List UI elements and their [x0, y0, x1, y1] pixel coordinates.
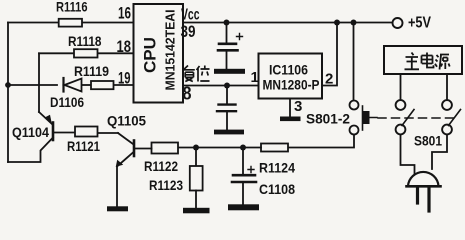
svg-text:1: 1 — [251, 69, 259, 86]
wire D1106 row (pin 19) — [8, 84, 57, 86]
svg-text:C1108: C1108 — [259, 181, 295, 197]
switch S801-2 pushbutton — [350, 101, 378, 135]
svg-text:MN15142TEAI: MN15142TEAI — [163, 10, 178, 91]
svg-text:IC1106: IC1106 — [269, 62, 308, 78]
resistor R1122 — [152, 143, 179, 154]
label 复位 (reset) hand-drawn — [184, 66, 210, 82]
node junction C1108 tap — [240, 145, 246, 151]
wire Vcc top rail — [183, 22, 392, 24]
svg-text:3: 3 — [294, 98, 302, 115]
svg-text:19: 19 — [118, 69, 131, 88]
switch S801 right pole — [442, 100, 460, 134]
capacitor C1107 (Vcc filter) — [218, 23, 243, 70]
svg-text:+5V: +5V — [408, 15, 432, 32]
node junction IC pin2 tap — [334, 20, 340, 26]
svg-text:R1118: R1118 — [68, 33, 102, 49]
ground (C1108) — [228, 204, 259, 210]
ground (Q1105 emitter) — [107, 206, 128, 211]
ground (Vcc filter cap) — [214, 69, 245, 74]
wire plug right lead — [432, 135, 447, 170]
node junction R1123 tap — [193, 145, 199, 151]
ground (R1123) — [183, 208, 210, 214]
svg-text:S801-2: S801-2 — [306, 111, 350, 127]
diode D1106 — [64, 78, 82, 92]
op-amp CPU U-box MN15142TEAI — [134, 4, 184, 103]
switch S801 left pole — [396, 100, 414, 134]
svg-text:39: 39 — [181, 22, 196, 41]
svg-text:8: 8 — [183, 84, 192, 104]
resistor R1119 — [91, 81, 114, 89]
主电源 box — [384, 46, 462, 74]
capacitor C1108 — [232, 148, 256, 205]
svg-text:Q1105: Q1105 — [107, 113, 146, 129]
wire plug left lead — [401, 135, 415, 174]
ground (reset cap) — [214, 130, 244, 135]
op-amp IC1106 MN1280-P box — [259, 54, 323, 99]
wire mechanical linkage (dashed) — [378, 117, 456, 119]
resistor R1124 — [261, 144, 288, 152]
svg-text:Q1104: Q1104 — [12, 124, 49, 140]
resistor R1118 — [74, 49, 98, 57]
wire IC1106 pin3 — [289, 99, 291, 118]
svg-text:R1116: R1116 — [56, 0, 88, 14]
node +5V terminal — [393, 18, 403, 28]
label 主电源 (main power) hand-drawn — [405, 53, 450, 70]
svg-text:R1124: R1124 — [259, 160, 295, 176]
ground (IC1106 pin3) — [280, 117, 301, 122]
wire vertical from R1118 to Q1104 emitter — [38, 53, 40, 112]
svg-text:2: 2 — [325, 71, 333, 88]
wire 主电源 box leads — [400, 74, 402, 100]
wire S801-2 top feed from +5V rail — [353, 23, 355, 101]
resistor R1121 — [75, 127, 98, 137]
AC plug P801 — [407, 172, 441, 211]
svg-text:MN1280-P: MN1280-P — [263, 77, 320, 93]
capacitor C (reset) — [217, 86, 236, 130]
svg-text:R1123: R1123 — [149, 177, 183, 193]
svg-text:R1122: R1122 — [144, 158, 178, 174]
svg-text:Vcc: Vcc — [181, 7, 200, 24]
wire IC1106 pin2 to +5V rail — [322, 23, 337, 86]
wire left vertical bus — [7, 23, 9, 163]
node junction S801-2 tap — [351, 20, 357, 26]
svg-text:CPU: CPU — [142, 37, 160, 73]
svg-text:R1119: R1119 — [74, 63, 109, 79]
wire reset row (pin 8 to IC1106 pin1) — [183, 85, 259, 87]
svg-text:R1121: R1121 — [67, 138, 100, 154]
resistor R1123 (vertical) — [190, 148, 203, 209]
node junction C1107 tap — [224, 20, 230, 26]
svg-text:S801: S801 — [414, 133, 442, 149]
resistor R1116 — [59, 19, 82, 27]
wire main row R1122..R1124 — [178, 147, 261, 149]
wire S801-2 bottom to R1124 — [288, 135, 354, 148]
svg-text:16: 16 — [118, 4, 131, 23]
node junction on left bus at D1106 row — [5, 82, 11, 88]
svg-text:18: 18 — [117, 37, 132, 56]
transistor Q1105 — [98, 133, 152, 207]
wire R1118 row (pin 18) — [39, 52, 74, 54]
wire R1116 row (pin 16) — [8, 22, 59, 24]
svg-text:D1106: D1106 — [50, 94, 84, 110]
transistor Q1104 — [8, 112, 75, 162]
node junction reset cap tap — [224, 83, 230, 89]
